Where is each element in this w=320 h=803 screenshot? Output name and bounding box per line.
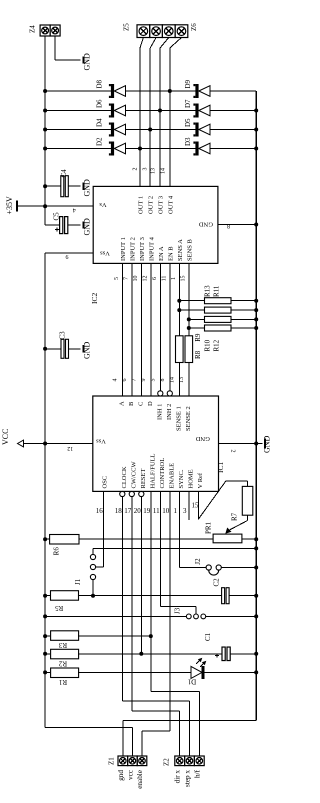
connector Z2	[175, 756, 185, 766]
svg-text:9: 9	[141, 379, 147, 382]
svg-text:R13: R13	[204, 285, 212, 297]
wire J2 to GND bus	[221, 567, 256, 569]
svg-text:IC2: IC2	[90, 293, 99, 305]
svg-text:Z2: Z2	[163, 758, 171, 766]
svg-text:INPUT 4: INPUT 4	[148, 236, 155, 261]
svg-text:C1: C1	[204, 632, 212, 641]
capacitor C4	[45, 185, 61, 187]
diode D8	[111, 84, 114, 98]
svg-text:D7: D7	[184, 99, 192, 108]
wire oscillator RC row to C2	[79, 595, 222, 597]
wire HOME pin 3 stub	[188, 491, 190, 520]
wire J1 bottom to oscillator RC node	[92, 580, 94, 596]
wire clamp diode row 3	[45, 129, 256, 131]
svg-text:GND: GND	[83, 341, 92, 359]
ground at C4	[83, 183, 85, 190]
svg-text:RESET: RESET	[140, 469, 147, 489]
resistor R12 sense B	[189, 327, 205, 329]
svg-text:13: 13	[151, 168, 157, 174]
svg-text:R2: R2	[58, 659, 67, 667]
svg-text:GND: GND	[83, 179, 92, 197]
wire enable B (IC2 EN B - IC1 INH2)	[169, 263, 171, 393]
svg-text:PR1: PR1	[205, 521, 213, 534]
LED D1	[191, 666, 202, 678]
svg-text:EN B: EN B	[167, 246, 174, 261]
svg-text:5: 5	[150, 379, 156, 382]
wire motor phase OUT2 (Z5.2 to IC2 OUT2)	[150, 38, 156, 49]
svg-text:HOME: HOME	[187, 469, 194, 488]
svg-text:+35V: +35V	[5, 196, 14, 215]
supply +35V	[45, 205, 93, 207]
svg-text:GND: GND	[199, 220, 213, 227]
svg-text:16: 16	[96, 507, 104, 515]
svg-text:1: 1	[171, 277, 177, 280]
wire motor phase OUT3 (Z6.1 to IC2 OUT3)	[160, 38, 169, 49]
connector Z4	[40, 25, 50, 36]
jumper J2	[206, 565, 211, 570]
svg-text:C3: C3	[59, 331, 67, 340]
svg-text:Z4: Z4	[29, 25, 37, 33]
resistor R5	[45, 595, 50, 597]
wire CLOCK pin 18 down (step x)	[121, 497, 123, 701]
svg-text:R6: R6	[53, 547, 61, 556]
svg-text:4: 4	[73, 207, 76, 213]
wire clamp diode row 1	[45, 90, 256, 92]
resistor R13 sense A	[179, 300, 204, 302]
resistor R7	[242, 486, 253, 515]
svg-text:dir x: dir x	[174, 770, 182, 784]
svg-text:h/f: h/f	[193, 769, 201, 778]
svg-text:18: 18	[115, 507, 123, 515]
svg-text:SYNC.: SYNC.	[178, 469, 185, 488]
svg-text:J3: J3	[174, 607, 182, 614]
IC1 L297 stepper controller box	[93, 396, 219, 491]
svg-text:D9: D9	[184, 79, 192, 88]
svg-text:12: 12	[67, 445, 73, 451]
svg-text:D: D	[147, 401, 154, 406]
svg-text:R8: R8	[194, 350, 202, 359]
wire motor phase OUT1 (Z5.1 to IC2 OUT1)	[140, 38, 143, 49]
wire J3 right to GND bus	[206, 615, 257, 617]
svg-text:2: 2	[230, 450, 236, 453]
svg-text:8: 8	[227, 225, 230, 231]
svg-text:OUT 3: OUT 3	[158, 196, 165, 214]
svg-text:gnd: gnd	[117, 770, 125, 781]
svg-text:12: 12	[142, 276, 148, 282]
svg-text:14: 14	[169, 377, 175, 383]
svg-text:D6: D6	[96, 99, 104, 108]
svg-text:Vss: Vss	[100, 250, 110, 257]
svg-text:5: 5	[114, 277, 120, 280]
svg-text:D8: D8	[96, 79, 104, 88]
svg-text:17: 17	[124, 507, 132, 515]
svg-text:R3: R3	[58, 641, 67, 649]
wire step x run to Z2	[122, 700, 189, 702]
svg-text:C4: C4	[60, 169, 68, 178]
wire sense A (IC2 SENS A - R8 - IC1 SENSE1)	[178, 263, 180, 335]
svg-text:R7: R7	[231, 512, 239, 521]
svg-text:R10: R10	[204, 339, 212, 351]
wire GND bus bottom run to Z1 gnd pin	[123, 720, 256, 722]
svg-text:OUT 1: OUT 1	[138, 196, 145, 214]
svg-text:INH 2: INH 2	[166, 404, 173, 420]
wire enable A (IC2 EN A - IC1 INH1)	[159, 263, 161, 393]
wire logic input 2 (IC2 INPUT2 - IC1 B)	[131, 263, 133, 396]
wire +35V left bus	[44, 36, 46, 225]
wire Z4 pin2 to ground	[54, 36, 56, 60]
svg-text:3: 3	[143, 168, 149, 171]
svg-text:R11: R11	[213, 285, 221, 297]
wire J1 top to GND bus	[93, 547, 256, 549]
resistor R10 sense B	[189, 318, 205, 320]
resistor R3	[45, 635, 50, 637]
capacitor C1	[222, 647, 225, 661]
wire clamp diode row 4	[45, 148, 256, 150]
svg-text:OUT 2: OUT 2	[148, 196, 155, 214]
svg-text:V Ref: V Ref	[197, 472, 204, 488]
svg-text:ENABLE: ENABLE	[168, 463, 175, 489]
wire IC1 GND pin 2 to GND bus	[219, 443, 257, 445]
diode D3	[195, 142, 198, 156]
svg-text:D3: D3	[184, 137, 192, 146]
wire SYNC pin 1 to J2	[178, 491, 180, 567]
diode D2	[111, 142, 114, 156]
diode D6	[111, 104, 114, 118]
svg-text:VCC: VCC	[1, 429, 10, 445]
ground at IC1	[256, 443, 262, 445]
svg-text:INPUT 2: INPUT 2	[129, 237, 136, 261]
resistor R11 sense A	[179, 309, 204, 311]
svg-text:1: 1	[174, 507, 178, 515]
svg-text:step x: step x	[184, 770, 192, 787]
svg-text:D4: D4	[96, 118, 104, 127]
svg-text:Vs: Vs	[99, 201, 107, 208]
svg-text:INPUT 3: INPUT 3	[139, 237, 146, 261]
svg-text:SENSE 2: SENSE 2	[185, 406, 192, 431]
svg-text:C5: C5	[53, 212, 61, 221]
resistor R2	[45, 653, 50, 655]
svg-text:6: 6	[152, 277, 158, 280]
svg-text:A: A	[118, 401, 125, 406]
svg-text:4: 4	[112, 379, 118, 382]
svg-text:D2: D2	[96, 137, 104, 146]
wire logic input 1 (IC2 INPUT1 - IC1 A)	[121, 263, 123, 396]
node inversion bubbles CLOCK CW/CCW RESET	[120, 491, 125, 496]
svg-text:20: 20	[134, 507, 142, 515]
svg-text:CLOCK: CLOCK	[121, 466, 128, 488]
resistor R1	[45, 671, 50, 673]
connector Z6	[162, 25, 175, 38]
wire motor phase OUT4 (Z6.2 to IC2 OUT4)	[170, 38, 182, 49]
wire VCC to J3 left	[45, 615, 186, 617]
svg-text:R5: R5	[55, 604, 64, 612]
svg-text:R1: R1	[58, 678, 67, 686]
connector Z5	[137, 25, 150, 38]
svg-text:Vss: Vss	[96, 438, 106, 445]
diode D9	[195, 84, 198, 98]
diode D4	[111, 123, 114, 137]
svg-text:C2: C2	[213, 578, 221, 587]
svg-text:SENSE 1: SENSE 1	[175, 406, 182, 431]
resistor R8	[176, 336, 184, 363]
ground at Z4	[83, 56, 85, 63]
wire PR1 to GND bus	[242, 538, 256, 540]
jumper J3	[186, 614, 191, 619]
ground at C5	[83, 222, 85, 229]
wire logic input 4 (IC2 INPUT4 - IC1 D)	[150, 263, 152, 396]
wire ENABLE pin 10 down	[169, 491, 171, 730]
svg-text:Z1: Z1	[108, 757, 116, 765]
wire R7 bottom to PR1 wiper arrow	[247, 515, 249, 520]
resistor R6	[45, 538, 50, 540]
svg-text:EN A: EN A	[158, 246, 165, 261]
svg-text:19: 19	[143, 507, 151, 515]
wire R3 to h/f line	[78, 635, 151, 637]
ground at C3	[83, 345, 85, 352]
svg-text:R12: R12	[213, 339, 221, 351]
svg-text:2: 2	[133, 168, 139, 171]
svg-text:GND: GND	[83, 53, 92, 71]
jumper J1	[90, 554, 95, 559]
node inversion bubbles INH1 INH2	[158, 391, 163, 396]
svg-text:13: 13	[179, 377, 185, 383]
connector Z1	[118, 756, 128, 766]
svg-text:SENS B: SENS B	[186, 238, 193, 261]
wire enable run to Z1	[142, 730, 170, 732]
svg-text:D1: D1	[187, 678, 196, 686]
svg-text:6: 6	[122, 379, 128, 382]
wire clamp diode row 2	[45, 110, 256, 112]
supply VCC	[23, 443, 45, 445]
potentiometer PR1	[213, 534, 242, 543]
svg-text:14: 14	[160, 168, 166, 174]
wire HALF/FULL pin 19 down (h/f)	[150, 491, 152, 691]
svg-text:IC1: IC1	[216, 462, 225, 474]
svg-text:OUT 4: OUT 4	[167, 195, 174, 214]
wire Vref pin 15 down	[197, 491, 199, 519]
resistor R9	[185, 336, 193, 363]
wire OSC pin 16 to J1 middle	[102, 491, 104, 567]
svg-text:SENS A: SENS A	[177, 239, 184, 261]
svg-text:11: 11	[153, 507, 160, 515]
svg-text:enable: enable	[136, 770, 144, 789]
svg-text:11: 11	[161, 276, 167, 282]
wire CW/CCW pin 17 down (dir x)	[131, 497, 133, 711]
svg-text:B: B	[128, 401, 135, 406]
wire Vref to R7 top (diagonal)	[198, 481, 226, 520]
svg-text:7: 7	[131, 379, 137, 382]
wire h/f run to Z2	[151, 691, 200, 693]
capacitor C3	[45, 348, 61, 350]
svg-text:J1: J1	[74, 578, 82, 585]
svg-text:INH 1: INH 1	[156, 404, 163, 420]
svg-text:10: 10	[133, 276, 139, 282]
svg-text:CW/CCW: CW/CCW	[130, 461, 137, 489]
wire GND right bus	[255, 91, 257, 721]
svg-text:C: C	[137, 402, 144, 406]
svg-text:Z5: Z5	[123, 23, 131, 31]
wire reset RC row to C1	[78, 653, 222, 655]
svg-text:Z6: Z6	[190, 23, 198, 31]
svg-text:OSC: OSC	[102, 476, 109, 489]
wire VCC left bus	[44, 253, 46, 727]
wire sense B (IC2 SENS B - R9 - IC1 SENSE2)	[188, 263, 190, 335]
capacitor C2	[222, 588, 225, 604]
svg-text:D5: D5	[184, 118, 192, 127]
diode D5	[195, 123, 198, 137]
svg-text:J2: J2	[194, 558, 202, 565]
capacitor C5	[45, 224, 60, 226]
svg-text:GND: GND	[195, 435, 209, 442]
wire R1 to LED D1	[78, 671, 191, 673]
wire IC2 Vss pin 9 to VCC bus	[45, 252, 93, 254]
wire VCC bus bottom run to Z1 vcc pin	[45, 727, 132, 729]
wire IC1 Vss pin 12 to VCC bus	[45, 443, 93, 445]
wire RESET pin 20 down to reset RC node	[140, 497, 142, 654]
svg-text:10: 10	[162, 507, 170, 515]
svg-text:INPUT 1: INPUT 1	[120, 237, 127, 261]
wire D1 to GND bus	[205, 671, 257, 673]
svg-text:15: 15	[180, 276, 186, 282]
diode D7	[195, 104, 198, 118]
svg-text:9: 9	[66, 253, 69, 259]
wire IC2 GND pin 8 to GND bus	[218, 224, 256, 226]
svg-text:R9: R9	[194, 333, 202, 342]
wire CONTROL pin 11 to J3 middle	[159, 491, 161, 606]
svg-text:8: 8	[160, 379, 166, 382]
svg-text:HALF/FULL: HALF/FULL	[149, 453, 156, 488]
svg-text:GND: GND	[263, 435, 272, 453]
svg-text:CONTROL: CONTROL	[159, 458, 166, 489]
wire logic input 3 (IC2 INPUT3 - IC1 C)	[140, 263, 142, 396]
svg-text:GND: GND	[83, 218, 92, 236]
IC2 L298 dual bridge driver box	[93, 186, 218, 263]
svg-text:3: 3	[183, 507, 187, 515]
svg-text:vcc: vcc	[126, 770, 134, 780]
svg-text:7: 7	[123, 277, 129, 280]
wire dir x run to Z2	[132, 710, 180, 712]
